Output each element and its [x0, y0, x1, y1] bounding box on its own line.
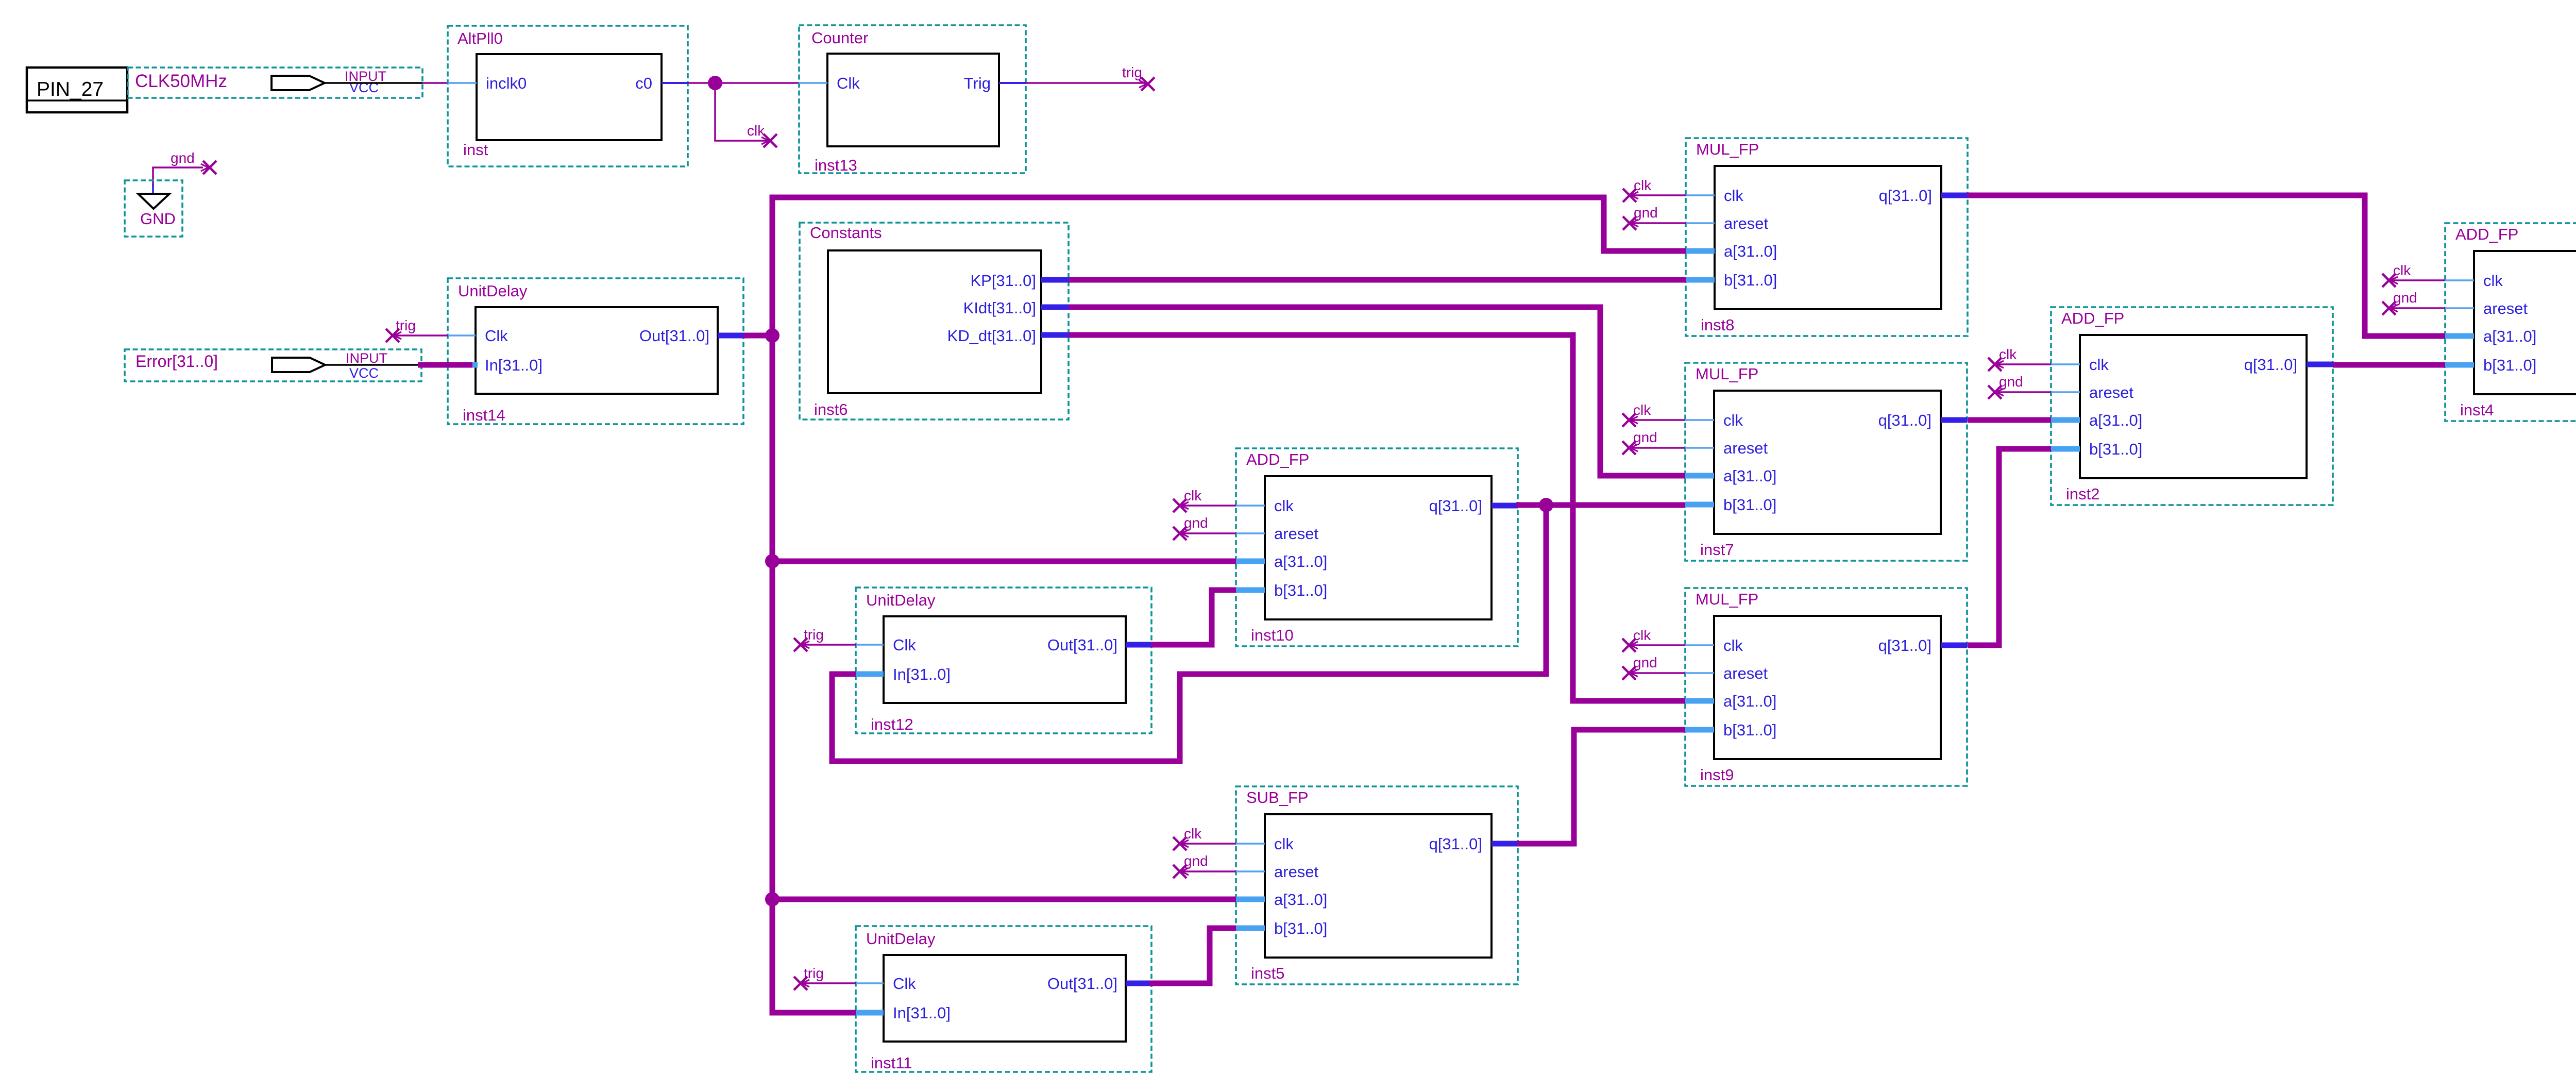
inst11 pin Out[31..0] stub: [1126, 981, 1151, 986]
junction node trunk at inst14 Out: [765, 328, 779, 343]
wire clk no-connect at inst8: [1630, 194, 1686, 196]
inst9 instance label: [1700, 766, 1734, 784]
no-connect X gnd at inst2: [1988, 385, 2004, 399]
svg-text:In[31..0]: In[31..0]: [893, 1004, 951, 1022]
svg-text:b[31..0]: b[31..0]: [1723, 721, 1776, 739]
bus wire Error net trunk with top run to inst8 a and bottom run to inst11 In: [772, 197, 1686, 1013]
inst11 pin Clk stub: [856, 982, 884, 984]
svg-text:gnd: gnd: [1999, 374, 2023, 390]
no-connect X trig at inst12: [794, 638, 809, 651]
inst9 pin a[31..0] stub: [1685, 698, 1714, 704]
inst2 pin areset stub: [2051, 391, 2080, 393]
wire gnd no-connect at inst10: [1180, 532, 1236, 534]
svg-text:areset: areset: [1274, 525, 1319, 543]
inst11 body: [884, 955, 1126, 1042]
no-connect X clk net: [761, 134, 777, 147]
bus wire inst9 q to inst2 b: [1968, 449, 2051, 645]
bus wire inst14 Out to trunk junction: [743, 333, 772, 339]
inst7 title label MUL_FP: [1696, 365, 1758, 383]
svg-text:areset: areset: [1723, 664, 1768, 682]
svg-text:KD_dt[31..0]: KD_dt[31..0]: [947, 327, 1036, 345]
inst2 pin labels: [2089, 356, 2297, 458]
inst10 body: [1265, 476, 1492, 619]
svg-text:gnd: gnd: [1634, 205, 1658, 221]
Constants pin labels: [947, 272, 1036, 345]
inst2 instance label: [2066, 485, 2099, 503]
net label gnd at inst5: [1184, 853, 1208, 869]
svg-text:clk: clk: [1184, 826, 1202, 842]
wire trig no-connect at inst12: [801, 644, 856, 646]
ground symbol triangle: [138, 194, 170, 209]
svg-text:trig: trig: [804, 627, 824, 643]
svg-text:clk: clk: [1633, 627, 1651, 643]
inst10 pin labels: [1274, 497, 1482, 599]
inst5 pin a[31..0] stub: [1236, 897, 1265, 902]
net label gnd at inst9: [1633, 654, 1657, 670]
svg-text:Counter: Counter: [811, 29, 868, 47]
svg-text:b[31..0]: b[31..0]: [1274, 581, 1327, 599]
inst14 pin Out[31..0] stub: [718, 333, 743, 339]
AltPll0 body: [477, 54, 662, 140]
svg-text:q[31..0]: q[31..0]: [1429, 835, 1482, 853]
inst8 body: [1715, 166, 1941, 309]
svg-text:PIN_27: PIN_27: [37, 78, 104, 100]
inst8 pin q[31..0] stub: [1941, 193, 1968, 198]
inst8 pin b[31..0] stub: [1686, 277, 1715, 283]
Counter body: [827, 54, 999, 146]
junction node on inst10 q net: [1539, 498, 1553, 512]
svg-text:inst10: inst10: [1251, 626, 1294, 644]
Constants pin KD_dt[31..0] stub: [1041, 332, 1069, 338]
inst10 pin areset stub: [1236, 532, 1265, 534]
inst7 pin labels: [1723, 411, 1931, 514]
net label clk at inst7: [1633, 402, 1651, 418]
svg-text:clk: clk: [1184, 488, 1202, 503]
inst12 pin labels: [893, 636, 1117, 683]
svg-text:VCC: VCC: [349, 365, 379, 381]
svg-text:Out[31..0]: Out[31..0]: [1047, 636, 1117, 654]
inst9 pin areset stub: [1685, 672, 1714, 674]
svg-text:MUL_FP: MUL_FP: [1696, 365, 1758, 383]
net label clk at inst4: [2393, 262, 2411, 278]
inst4 pin areset stub: [2445, 307, 2474, 309]
net label clk at inst8: [1634, 177, 1652, 193]
svg-text:trig: trig: [1122, 64, 1142, 80]
svg-text:areset: areset: [2089, 383, 2134, 401]
Constants pin KP[31..0] stub: [1041, 277, 1069, 283]
inst2 pin clk stub: [2051, 363, 2080, 365]
svg-text:clk: clk: [1723, 411, 1743, 429]
bus wire trunk branch to inst5 a: [772, 897, 1236, 902]
svg-text:MUL_FP: MUL_FP: [1696, 140, 1759, 158]
bus wire inst8 q to inst4 a: [1967, 195, 2445, 336]
junction node trunk at inst5 branch: [765, 892, 779, 907]
svg-text:gnd: gnd: [1184, 515, 1208, 531]
net label gnd at inst7: [1633, 429, 1657, 445]
inst11 instance label: [871, 1054, 912, 1072]
inst10 pin clk stub: [1236, 505, 1265, 507]
svg-text:clk: clk: [1724, 187, 1743, 205]
net label gnd at inst4: [2393, 290, 2417, 306]
ground symbol label GND: [140, 210, 176, 228]
inst9 title label MUL_FP: [1696, 590, 1758, 608]
net label clk at inst10: [1184, 488, 1202, 503]
inst5 pin b[31..0] stub: [1236, 926, 1265, 931]
svg-text:gnd: gnd: [2393, 290, 2417, 306]
no-connect X clk at inst2: [1988, 358, 2004, 371]
wire gnd no-connect at inst9: [1629, 672, 1685, 674]
bus wire KD_dt to inst9 a: [1069, 335, 1685, 701]
inst8 instance label: [1701, 316, 1734, 334]
svg-text:Clk: Clk: [837, 74, 860, 92]
adder ADD_FP inst10 dashed boundary: [1236, 448, 1518, 646]
svg-text:UnitDelay: UnitDelay: [866, 930, 936, 948]
no-connect X clk at inst5: [1173, 837, 1189, 850]
Counter instance label inst13: [815, 156, 857, 174]
ground symbol GND dashed boundary: [125, 180, 182, 237]
inst12 title label UnitDelay: [866, 591, 936, 609]
svg-text:c0: c0: [635, 74, 652, 92]
svg-text:Out[31..0]: Out[31..0]: [639, 327, 709, 345]
svg-text:CLK50MHz: CLK50MHz: [135, 71, 227, 91]
inst9 body: [1714, 616, 1941, 759]
AltPll0 pin inclk0 stub: [448, 82, 477, 84]
net label trig at inst11: [804, 965, 824, 981]
net label trig near Counter: [1122, 64, 1142, 80]
inst5 pin labels: [1274, 835, 1482, 937]
svg-text:clk: clk: [1999, 346, 2017, 362]
svg-text:areset: areset: [1723, 439, 1768, 457]
svg-text:inst2: inst2: [2066, 485, 2099, 503]
Counter title label: [811, 29, 868, 47]
multiplier MUL_FP inst8 dashed boundary: [1686, 138, 1968, 336]
svg-text:Constants: Constants: [810, 224, 882, 242]
inst11 title label UnitDelay: [866, 930, 936, 948]
svg-text:inst8: inst8: [1701, 316, 1734, 334]
svg-text:a[31..0]: a[31..0]: [1723, 692, 1776, 710]
no-connect X clk at inst10: [1173, 499, 1189, 512]
no-connect X clk at inst8: [1623, 189, 1638, 202]
wire trig output of Counter: [1026, 82, 1146, 84]
multiplier MUL_FP inst7 dashed boundary: [1685, 363, 1967, 561]
input pin assignment box PIN_27: [27, 68, 127, 112]
wire clk no-connect at inst2: [1995, 363, 2051, 365]
inst2 pin q[31..0] stub: [2307, 362, 2333, 367]
AltPll0 pin c0 stub: [662, 82, 688, 84]
bus wire Error input to inst14 In: [325, 364, 418, 366]
bus wire inst5 q to inst9 b: [1517, 730, 1685, 844]
inst5 pin clk stub: [1236, 843, 1265, 845]
inst2 pin a[31..0] stub: [2051, 417, 2080, 423]
svg-text:trig: trig: [804, 965, 824, 981]
wire trig no-connect at inst11: [801, 982, 856, 984]
inst4 instance label: [2460, 401, 2494, 419]
inst5 body: [1265, 814, 1492, 958]
svg-text:a[31..0]: a[31..0]: [2483, 327, 2536, 345]
inst2 body: [2080, 335, 2307, 478]
AltPll0 title label: [457, 29, 503, 47]
inst7 body: [1714, 391, 1941, 534]
adder ADD_FP inst4 dashed boundary: [2445, 223, 2576, 421]
inst14 pin In[31..0] stub: [448, 362, 476, 368]
inst14 instance label: [463, 406, 505, 424]
svg-text:b[31..0]: b[31..0]: [2089, 440, 2142, 458]
no-connect X gnd at inst10: [1173, 527, 1189, 540]
subtractor SUB_FP inst5 dashed boundary: [1236, 786, 1518, 984]
wire gnd no-connect at inst5: [1180, 870, 1236, 872]
net label CLK50MHz: [135, 71, 227, 91]
svg-text:b[31..0]: b[31..0]: [1723, 496, 1776, 514]
wire clk no-connect at inst5: [1180, 843, 1236, 845]
svg-text:KP[31..0]: KP[31..0]: [970, 272, 1036, 290]
no-connect X trig at inst14: [386, 329, 401, 342]
wire gnd no-connect at inst7: [1629, 447, 1685, 449]
net label trig at inst14: [396, 317, 416, 333]
wire CLK50MHz input to AltPll0: [325, 82, 448, 84]
svg-text:INPUT: INPUT: [346, 350, 387, 366]
svg-text:UnitDelay: UnitDelay: [866, 591, 936, 609]
Counter pin Clk stub: [799, 82, 827, 84]
svg-text:Clk: Clk: [485, 327, 508, 345]
unit delay inst12 dashed boundary: [856, 588, 1151, 733]
svg-text:a[31..0]: a[31..0]: [1274, 552, 1327, 570]
svg-text:inst9: inst9: [1700, 766, 1734, 784]
svg-text:inst: inst: [463, 141, 488, 159]
Counter pin Trig stub: [999, 82, 1026, 84]
inst10 pin a[31..0] stub: [1236, 559, 1265, 564]
inst2 title label ADD_FP: [2061, 309, 2124, 327]
constants block Constants inst6 dashed boundary: [800, 223, 1069, 419]
inst7 pin a[31..0] stub: [1685, 473, 1714, 479]
counter block Counter inst13 dashed boundary: [799, 25, 1026, 173]
inst8 pin labels: [1724, 187, 1932, 289]
inst4 pin b[31..0] stub: [2445, 362, 2474, 368]
svg-text:clk: clk: [1634, 177, 1652, 193]
svg-text:GND: GND: [140, 210, 176, 228]
inst14 title label UnitDelay: [458, 282, 528, 300]
wire clk stub from c0 junction: [715, 83, 770, 141]
AltPll0 instance label inst: [463, 141, 488, 159]
svg-text:inst13: inst13: [815, 156, 857, 174]
svg-text:trig: trig: [396, 317, 416, 333]
svg-text:clk: clk: [1274, 497, 1294, 515]
inst12 pin Clk stub: [856, 644, 884, 646]
inst12 instance label: [871, 715, 913, 733]
svg-text:SUB_FP: SUB_FP: [1246, 788, 1309, 807]
svg-text:ADD_FP: ADD_FP: [2455, 225, 2518, 243]
inst2 pin b[31..0] stub: [2051, 446, 2080, 452]
Counter pin labels: [837, 74, 991, 92]
net gnd wire: [153, 167, 203, 194]
bus wire inst10 q to inst7 b: [1516, 502, 1685, 508]
bus wire inst2 q to inst4 b: [2333, 362, 2445, 368]
no-connect X gnd at inst7: [1622, 441, 1638, 455]
no-connect X clk at inst4: [2382, 274, 2398, 287]
inst14 pin labels: [485, 327, 709, 374]
svg-text:ADD_FP: ADD_FP: [1246, 450, 1309, 468]
svg-text:a[31..0]: a[31..0]: [1274, 891, 1327, 909]
input port symbol for Error: [272, 358, 325, 372]
svg-text:a[31..0]: a[31..0]: [1723, 467, 1776, 485]
svg-text:inclk0: inclk0: [486, 74, 527, 92]
inst12 pin In[31..0] stub: [856, 672, 884, 677]
net label clk near AltPll0: [747, 123, 765, 139]
svg-text:In[31..0]: In[31..0]: [485, 356, 543, 374]
net label clk at inst2: [1999, 346, 2017, 362]
inst5 instance label: [1251, 964, 1284, 982]
inst10 pin b[31..0] stub: [1236, 588, 1265, 593]
AltPll0 pin labels: [486, 74, 652, 92]
inst9 pin q[31..0] stub: [1941, 643, 1967, 648]
no-connect X gnd at inst4: [2382, 301, 2398, 315]
wire gnd no-connect at inst4: [2389, 307, 2445, 309]
inst7 instance label: [1700, 541, 1734, 559]
inst4 pin clk stub: [2445, 279, 2474, 281]
inst10 title label ADD_FP: [1246, 450, 1309, 468]
svg-text:areset: areset: [1274, 863, 1319, 881]
Constants body: [828, 250, 1041, 393]
wire clk no-connect at inst10: [1180, 505, 1236, 507]
input connector Error[31..0] dashed boundary: [125, 349, 421, 381]
input connector CLK50MHz dashed boundary: [128, 68, 422, 98]
wire gnd no-connect at inst8: [1630, 222, 1686, 224]
svg-text:areset: areset: [2483, 299, 2528, 317]
Constants pin KIdt[31..0] stub: [1041, 305, 1069, 310]
svg-text:areset: areset: [1724, 214, 1769, 232]
unit delay inst14 dashed boundary: [448, 278, 743, 424]
input port symbol for CLK50MHz: [272, 76, 325, 90]
svg-text:clk: clk: [2393, 262, 2411, 278]
svg-text:clk: clk: [2483, 272, 2503, 290]
svg-text:In[31..0]: In[31..0]: [893, 665, 951, 683]
svg-text:gnd: gnd: [171, 150, 195, 166]
svg-text:MUL_FP: MUL_FP: [1696, 590, 1758, 608]
svg-text:a[31..0]: a[31..0]: [1724, 242, 1777, 260]
inst9 pin b[31..0] stub: [1685, 727, 1714, 733]
INPUT VCC label for Error: [346, 350, 387, 381]
inst5 pin q[31..0] stub: [1492, 841, 1518, 847]
bus wire inst10 q feedback to inst12 In: [832, 505, 1546, 761]
net label gnd: [171, 150, 195, 166]
multiplier MUL_FP inst9 dashed boundary: [1685, 588, 1967, 786]
inst12 pin Out[31..0] stub: [1126, 642, 1151, 648]
inst4 title label ADD_FP: [2455, 225, 2518, 243]
svg-text:inst5: inst5: [1251, 964, 1284, 982]
svg-text:gnd: gnd: [1633, 654, 1657, 670]
bus wire KIdt to inst7 a: [1069, 307, 1685, 476]
inst7 pin areset stub: [1685, 447, 1714, 449]
no-connect X clk at inst7: [1622, 413, 1638, 427]
svg-text:UnitDelay: UnitDelay: [458, 282, 528, 300]
inst5 title label SUB_FP: [1246, 788, 1309, 807]
bus wire inst12 Out to inst10 b: [1151, 590, 1236, 645]
bus wire KP to inst8 b: [1069, 277, 1686, 283]
svg-text:Clk: Clk: [893, 636, 916, 654]
svg-text:inst12: inst12: [871, 715, 913, 733]
no-connect X trig net: [1139, 77, 1155, 91]
inst9 pin clk stub: [1685, 644, 1714, 646]
inst7 pin q[31..0] stub: [1941, 417, 1967, 423]
net label clk at inst9: [1633, 627, 1651, 643]
wire trig no-connect at inst14: [393, 334, 448, 337]
inst4 pin a[31..0] stub: [2445, 333, 2474, 339]
inst4 body: [2474, 251, 2576, 394]
svg-text:inst7: inst7: [1700, 541, 1734, 559]
svg-text:clk: clk: [1723, 636, 1743, 654]
inst4 pin labels: [2483, 272, 2576, 374]
inst14 pin Clk stub: [448, 334, 476, 337]
svg-text:q[31..0]: q[31..0]: [1878, 636, 1931, 654]
inst8 pin areset stub: [1686, 222, 1715, 224]
net label gnd at inst2: [1999, 374, 2023, 390]
svg-text:Out[31..0]: Out[31..0]: [1047, 975, 1117, 993]
svg-text:clk: clk: [1633, 402, 1651, 418]
svg-text:inst11: inst11: [871, 1054, 912, 1072]
net label gnd at inst8: [1634, 205, 1658, 221]
inst8 title label MUL_FP: [1696, 140, 1759, 158]
svg-text:KIdt[31..0]: KIdt[31..0]: [963, 299, 1036, 317]
net label clk at inst5: [1184, 826, 1202, 842]
svg-text:clk: clk: [2089, 356, 2109, 374]
inst8 pin clk stub: [1686, 194, 1715, 196]
no-connect X gnd at inst9: [1622, 666, 1638, 680]
adder ADD_FP inst2 dashed boundary: [2051, 307, 2333, 505]
inst11 pin In[31..0] stub: [856, 1010, 884, 1016]
Constants title label: [810, 224, 882, 242]
inst11 pin labels: [893, 975, 1117, 1022]
inst10 pin q[31..0] stub: [1492, 503, 1518, 509]
Constants instance label inst6: [814, 400, 848, 418]
svg-text:q[31..0]: q[31..0]: [2244, 356, 2297, 374]
svg-text:Clk: Clk: [893, 975, 916, 993]
svg-text:gnd: gnd: [1633, 429, 1657, 445]
svg-text:inst6: inst6: [814, 400, 848, 418]
wire gnd no-connect at inst2: [1995, 391, 2051, 393]
wire clk no-connect at inst4: [2389, 279, 2445, 281]
net label gnd at inst10: [1184, 515, 1208, 531]
svg-text:b[31..0]: b[31..0]: [2483, 356, 2536, 374]
inst8 pin a[31..0] stub: [1686, 248, 1715, 254]
inst5 pin areset stub: [1236, 870, 1265, 872]
bus wire Error input bus over stub: [418, 362, 478, 368]
svg-text:AltPll0: AltPll0: [457, 29, 503, 47]
wire clk no-connect at inst7: [1629, 419, 1685, 421]
svg-text:q[31..0]: q[31..0]: [1879, 187, 1932, 205]
wire clk no-connect at inst9: [1629, 644, 1685, 646]
pll block AltPll0 inst dashed boundary: [448, 26, 688, 166]
unit delay inst11 dashed boundary: [856, 926, 1151, 1072]
svg-text:Trig: Trig: [964, 74, 991, 92]
svg-text:clk: clk: [747, 123, 765, 139]
bus wire trunk branch to inst10 a: [772, 559, 1236, 564]
INPUT VCC label for CLK50MHz: [345, 69, 386, 95]
svg-text:b[31..0]: b[31..0]: [1724, 271, 1777, 289]
inst14 body: [476, 307, 718, 394]
net label trig at inst12: [804, 627, 824, 643]
svg-text:a[31..0]: a[31..0]: [2089, 411, 2142, 429]
svg-text:q[31..0]: q[31..0]: [1429, 497, 1482, 515]
svg-text:ADD_FP: ADD_FP: [2061, 309, 2124, 327]
net label Error[31..0]: [135, 352, 218, 371]
svg-text:b[31..0]: b[31..0]: [1274, 919, 1327, 937]
no-connect X clk at inst9: [1622, 639, 1638, 652]
inst7 pin b[31..0] stub: [1685, 502, 1714, 508]
junction node trunk at inst10 branch: [765, 554, 779, 568]
no-connect X gnd at inst5: [1173, 865, 1189, 878]
svg-text:inst14: inst14: [463, 406, 505, 424]
wire c0 output net: [688, 82, 799, 84]
svg-text:Error[31..0]: Error[31..0]: [135, 352, 218, 371]
